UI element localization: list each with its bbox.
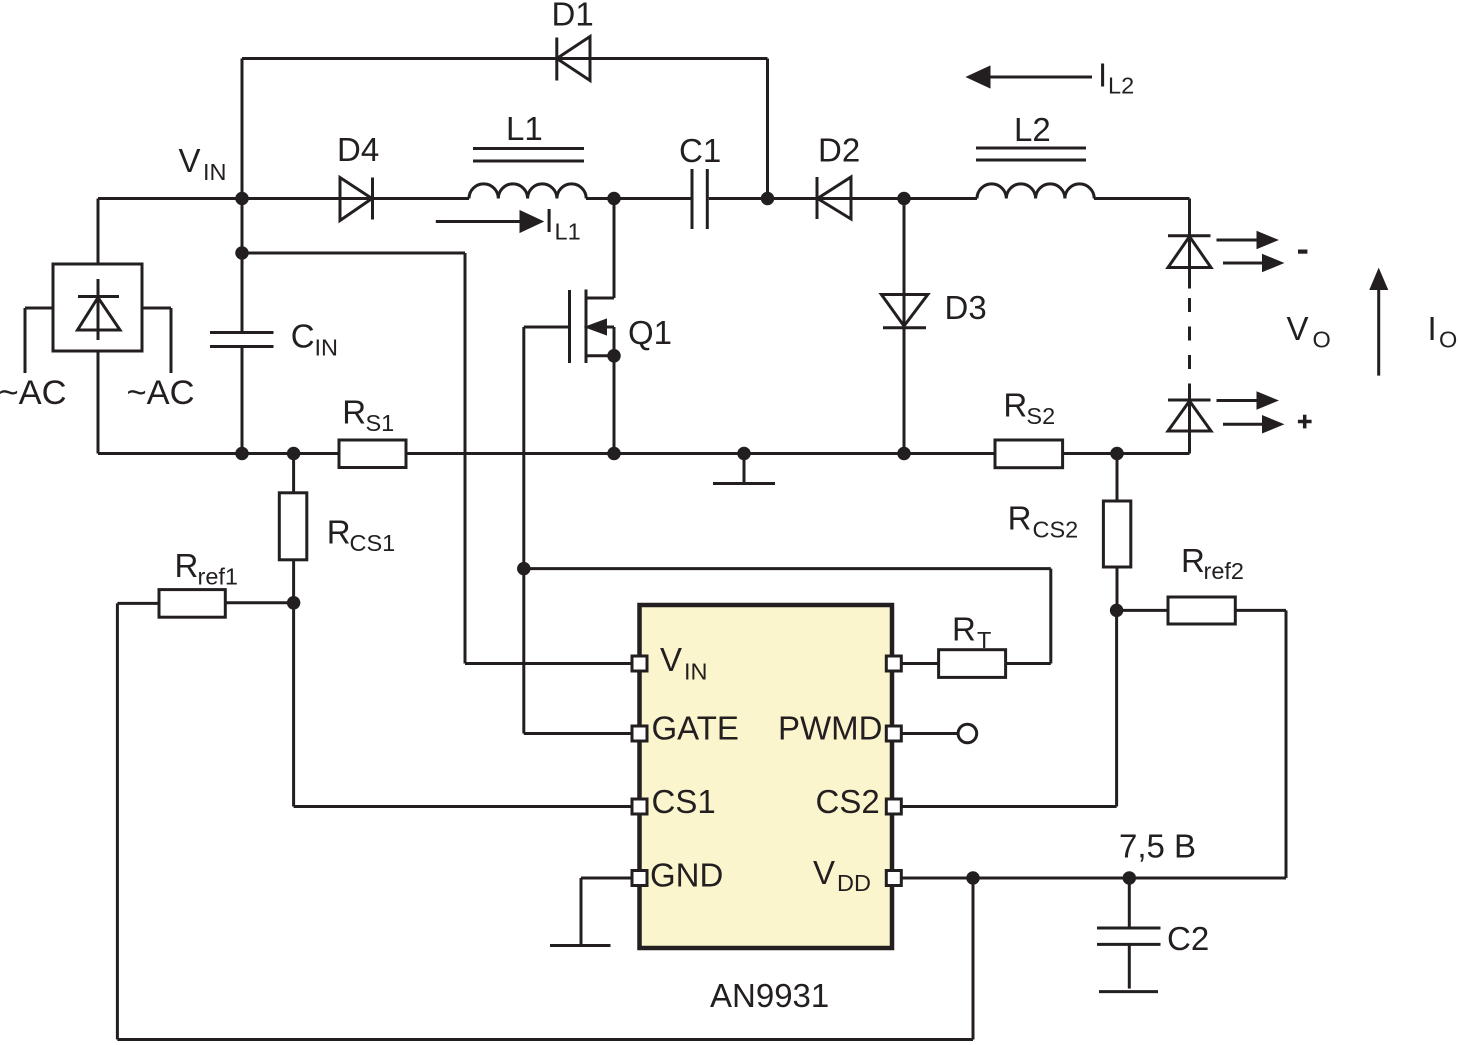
svg-text:V: V bbox=[179, 142, 201, 179]
svg-text:R: R bbox=[952, 611, 976, 648]
label D4 bbox=[337, 131, 379, 168]
node VIN branch bbox=[235, 246, 249, 260]
diode D3 bbox=[881, 199, 927, 454]
label RT bbox=[952, 611, 991, 654]
wire rail corner down to bridge bbox=[97, 199, 100, 265]
node Q1 drain bbox=[607, 192, 621, 206]
capacitor CIN bbox=[210, 199, 274, 454]
LED light arrows top bbox=[1217, 233, 1281, 270]
node Rref2 junction bbox=[1110, 604, 1124, 618]
IC pin GND bbox=[632, 871, 647, 886]
svg-text:L2: L2 bbox=[1108, 73, 1134, 99]
svg-text:GATE: GATE bbox=[652, 710, 739, 747]
resistor RS2 bbox=[995, 440, 1063, 468]
PWMD terminal bbox=[902, 724, 977, 743]
svg-text:S1: S1 bbox=[366, 410, 395, 436]
bridge rectifier BR1 bbox=[53, 264, 142, 351]
IC label VIN bbox=[660, 641, 708, 685]
IC pin VIN bbox=[632, 656, 647, 671]
label D2 bbox=[818, 132, 860, 169]
label RS2 bbox=[1003, 386, 1055, 429]
resistor Rref2 bbox=[1117, 597, 1286, 878]
svg-text:CS1: CS1 bbox=[350, 530, 396, 556]
wire gate bbox=[524, 327, 631, 734]
svg-text:R: R bbox=[342, 394, 366, 431]
label ~AC right bbox=[127, 374, 195, 412]
node D3 bottom bbox=[897, 447, 911, 461]
svg-text:C1: C1 bbox=[679, 132, 721, 169]
wire bottom rail mid bbox=[406, 452, 995, 455]
svg-text:D2: D2 bbox=[818, 132, 860, 169]
svg-text:I: I bbox=[545, 202, 554, 239]
inductor L2 bbox=[976, 148, 1094, 199]
svg-text:C2: C2 bbox=[1167, 920, 1209, 957]
resistor RT bbox=[524, 569, 1051, 678]
wire AC terminal right bbox=[142, 308, 171, 373]
wire AC terminal left bbox=[25, 308, 53, 373]
label IO bbox=[1428, 310, 1458, 352]
LED D6 bottom bbox=[1168, 400, 1211, 431]
svg-text:IN: IN bbox=[203, 159, 227, 185]
ground GND1 bbox=[713, 447, 775, 484]
label IL1 bbox=[545, 202, 581, 244]
IC label CS2 bbox=[816, 783, 880, 820]
svg-text:ref1: ref1 bbox=[198, 564, 239, 590]
svg-text:CS2: CS2 bbox=[1033, 516, 1079, 542]
svg-text:GND: GND bbox=[650, 856, 723, 893]
label IL2 bbox=[1098, 57, 1134, 99]
label RCS1 bbox=[327, 514, 395, 557]
wire top rail down to C1-D2 node bbox=[766, 59, 769, 199]
wire rail C1 to L2 bbox=[709, 197, 977, 200]
wire bottom rail right bbox=[1063, 452, 1190, 455]
node RCS1 top bbox=[287, 447, 301, 461]
node CIN bottom bbox=[235, 447, 249, 461]
wire GND pin to ground bbox=[581, 878, 631, 946]
wire main rail left segment bbox=[98, 197, 469, 200]
wire LED column upper bbox=[1188, 199, 1191, 289]
capacitor C2 bbox=[1097, 878, 1161, 992]
arrow IL2 bbox=[969, 68, 1092, 87]
svg-text:R: R bbox=[1003, 386, 1027, 423]
svg-text:V: V bbox=[813, 854, 835, 891]
svg-text:R: R bbox=[175, 547, 199, 584]
wire rail L2 to LED column bbox=[1094, 197, 1190, 200]
svg-text:7,5 В: 7,5 В bbox=[1119, 828, 1196, 865]
wire VDD bbox=[902, 877, 1286, 880]
node RCS2 top bbox=[1110, 447, 1124, 461]
svg-text:R: R bbox=[1181, 542, 1205, 579]
label 7.5 V bbox=[1119, 828, 1196, 865]
label CIN bbox=[291, 318, 338, 361]
wire CS1 bbox=[294, 603, 631, 807]
svg-text:IN: IN bbox=[684, 659, 708, 685]
IC pin CS1 bbox=[632, 799, 647, 814]
svg-text:I: I bbox=[1428, 310, 1437, 347]
wire bottom rail left bbox=[242, 452, 339, 455]
ground GND2 bbox=[550, 944, 611, 947]
svg-text:O: O bbox=[1439, 326, 1457, 352]
resistor RS1 bbox=[339, 440, 406, 468]
label minus bbox=[1298, 250, 1307, 254]
IC label VDD bbox=[813, 854, 871, 896]
svg-text:L1: L1 bbox=[506, 110, 543, 147]
wire bottom loop bbox=[117, 603, 973, 1039]
svg-text:R: R bbox=[1008, 500, 1032, 537]
svg-text:DD: DD bbox=[837, 870, 871, 896]
label VO bbox=[1287, 310, 1331, 352]
svg-text:~AC: ~AC bbox=[127, 374, 195, 412]
arrow IO bbox=[1372, 272, 1387, 376]
svg-text:IN: IN bbox=[315, 335, 339, 361]
label AN9931 bbox=[710, 977, 829, 1014]
svg-text:PWMD: PWMD bbox=[778, 710, 882, 747]
IC pin GATE bbox=[632, 726, 647, 741]
svg-text:R: R bbox=[327, 514, 351, 551]
diode D1 bbox=[557, 37, 590, 81]
svg-text:CS1: CS1 bbox=[652, 783, 716, 820]
svg-text:O: O bbox=[1313, 326, 1331, 352]
label Q1 bbox=[628, 314, 672, 351]
IC U1 AN9931 body bbox=[640, 605, 893, 948]
svg-text:Q1: Q1 bbox=[628, 314, 672, 351]
node Rref1 junction bbox=[287, 596, 301, 610]
label RCS2 bbox=[1008, 500, 1079, 543]
svg-text:CS2: CS2 bbox=[816, 783, 880, 820]
IC label CS1 bbox=[652, 783, 716, 820]
IC label GATE bbox=[652, 710, 739, 747]
wire CS2 bbox=[903, 610, 1117, 806]
IC label PWMD bbox=[778, 710, 882, 747]
IC label GND bbox=[650, 856, 723, 893]
svg-text:AN9931: AN9931 bbox=[710, 977, 829, 1014]
svg-text:D4: D4 bbox=[337, 131, 379, 168]
inductor L1 bbox=[469, 149, 586, 199]
node C1-D2 junction bbox=[761, 192, 775, 206]
IC pin RT bbox=[886, 656, 901, 671]
LED D5 top bbox=[1168, 236, 1211, 268]
arrow IL1 bbox=[436, 212, 541, 231]
node D3 top bbox=[897, 192, 911, 206]
svg-text:T: T bbox=[977, 627, 991, 653]
svg-text:S2: S2 bbox=[1026, 403, 1055, 429]
svg-text:D3: D3 bbox=[945, 289, 987, 326]
label L2 bbox=[1014, 111, 1051, 148]
node VIN bbox=[235, 192, 249, 206]
capacitor C1 bbox=[692, 169, 707, 229]
svg-text:L1: L1 bbox=[555, 218, 581, 244]
node Q1 source rail bbox=[607, 447, 621, 461]
label C1 bbox=[679, 132, 721, 169]
label C2 bbox=[1167, 920, 1209, 957]
diode D4 bbox=[340, 178, 373, 221]
svg-text:C: C bbox=[291, 318, 315, 355]
node 7.5V bbox=[1123, 871, 1137, 885]
wire rail L1 to C1 bbox=[586, 197, 691, 200]
wire VIN branch to IC bbox=[242, 253, 631, 664]
label Rref2 bbox=[1181, 542, 1244, 584]
label ~AC left bbox=[0, 374, 67, 412]
wire top rail bbox=[242, 57, 768, 60]
resistor Rref1 bbox=[117, 590, 293, 618]
label VIN bbox=[179, 142, 227, 185]
label Rref1 bbox=[175, 547, 239, 590]
wire VIN node up to top rail bbox=[241, 59, 244, 199]
label RS1 bbox=[342, 394, 394, 437]
LED light arrows bottom bbox=[1217, 394, 1281, 432]
wire LED column lower bbox=[1117, 397, 1190, 454]
label L1 bbox=[506, 110, 543, 147]
resistor RCS2 bbox=[1103, 454, 1130, 611]
transistor Q1 bbox=[570, 199, 621, 454]
svg-text:D1: D1 bbox=[552, 0, 594, 33]
wire bridge bottom to rail bbox=[98, 351, 242, 454]
node gate-RT junction bbox=[517, 562, 531, 576]
label plus bbox=[1298, 415, 1312, 429]
IC pin PWMD bbox=[886, 726, 901, 741]
node VDD loop bbox=[966, 871, 980, 885]
svg-text:L2: L2 bbox=[1014, 111, 1051, 148]
label D1 bbox=[552, 0, 594, 33]
label D3 bbox=[945, 289, 987, 326]
resistor RCS1 bbox=[279, 454, 307, 603]
svg-text:ref2: ref2 bbox=[1204, 558, 1245, 584]
svg-text:V: V bbox=[660, 641, 682, 678]
svg-text:I: I bbox=[1098, 57, 1107, 94]
svg-text:V: V bbox=[1287, 310, 1309, 347]
svg-text:~AC: ~AC bbox=[0, 374, 67, 412]
IC pin CS2 bbox=[886, 799, 901, 814]
IC pin VDD bbox=[886, 871, 901, 886]
wire LED dashed middle bbox=[1188, 298, 1191, 397]
diode D2 bbox=[817, 177, 851, 219]
